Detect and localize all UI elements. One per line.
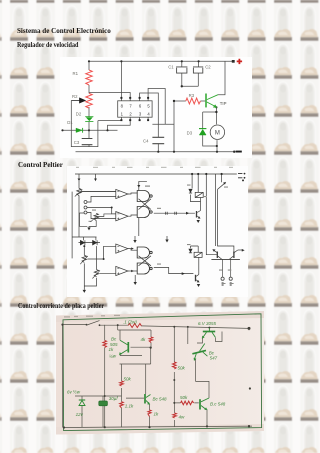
component value labels (67, 65, 226, 145)
ground arrow mid1 (134, 282, 137, 285)
ground arrow mid3 (133, 240, 136, 243)
wire latch2 cross coupling (139, 256, 152, 266)
wiper arrow of R2 (71, 98, 85, 103)
svg-text:.1 (2w): .1 (2w) (123, 319, 137, 324)
wire ground stub mid2 (166, 236, 168, 240)
wire top rail left (63, 324, 87, 326)
wire mid horizontal node row (62, 129, 117, 131)
resistor 50k mid (173, 362, 177, 369)
wire v 131.8 to driver (187, 327, 189, 344)
wire T4 collector loop to Q5 emitter (196, 359, 210, 398)
supply arrow pot1 (78, 179, 81, 182)
wire 2N3055 emitter down (197, 338, 203, 343)
wire connector J1 row3 (87, 213, 116, 219)
svg-text:R1: R1 (72, 71, 78, 76)
supply plus terminal (236, 59, 241, 64)
arrowhead latch1 to Q1 (186, 212, 189, 215)
wire P4 wiper to U1B (80, 213, 112, 228)
svg-text:505: 505 (110, 342, 118, 347)
svg-text:D3: D3 (186, 130, 192, 135)
wire R7 branch (174, 403, 176, 427)
wire left edge vertical (62, 325, 64, 428)
svg-text:TIP: TIP (219, 101, 226, 106)
wire right edge stub (248, 328, 250, 330)
motor M1 (210, 125, 224, 139)
relay K2 flyback diode (189, 249, 192, 253)
svg-text:1.1k: 1.1k (125, 404, 134, 409)
svg-text:Bc 548: Bc 548 (153, 397, 168, 402)
svg-text:R2: R2 (72, 94, 78, 99)
arrowhead op4 out (131, 270, 134, 272)
capacitor C3 (81, 139, 92, 145)
wire connector J1 row1 (87, 196, 116, 202)
wire long vertical rail B (215, 174, 217, 246)
wire Q1 emitter branch (120, 354, 142, 355)
svg-text:6.V 3055: 6.V 3055 (198, 321, 217, 326)
capacitor C4 (152, 137, 164, 143)
wire collector to rail (218, 61, 225, 94)
wire pin1 connection (107, 121, 130, 131)
schematic 2: control peltier (logic/relay board) (67, 166, 248, 297)
output pair Q3 (213, 249, 222, 259)
arrow to external load (238, 249, 245, 251)
wire gate G2 bottom stub (138, 218, 140, 236)
potentiometer 50k left (120, 381, 124, 386)
signal ticks on latch1 output (166, 212, 177, 215)
wire latch1 cross coupling (139, 199, 152, 210)
nand gate G3 (137, 247, 152, 258)
nand gate G1 (137, 191, 152, 202)
wire latch1 output to Q1 base (154, 212, 195, 214)
wire P2 wiper to op-amp U2A (87, 246, 115, 259)
wire left block top row (75, 395, 122, 397)
wire v 119 (173, 327, 175, 362)
terminal dash rows top right (238, 174, 242, 178)
transistor Q2 (196, 275, 200, 283)
faint header smudges (76, 167, 233, 168)
capacitor C1 (176, 67, 187, 73)
wire 2N3055 collector loop (216, 332, 223, 342)
resistor 1k quarter W (103, 341, 107, 348)
LED D2 (85, 117, 93, 122)
transistor Q1 BC548 (119, 340, 128, 355)
relay K2 coil box (194, 252, 202, 257)
diode DA (80, 240, 85, 245)
subtitle: Control corriente de placa peltier (18, 301, 104, 310)
wire ground stub mid1 (134, 275, 136, 282)
wire top rail mid (100, 324, 129, 326)
wire left vertical segments (88, 61, 90, 146)
transistor 2N3055 (202, 328, 216, 339)
electrolytic capacitor 300uF (99, 401, 108, 406)
IC pin pads (120, 97, 149, 121)
schematic 1: regulador de velocidad (555 PWM motor speed control) (60, 57, 252, 158)
wire pin6 to C4 (139, 93, 158, 137)
svg-text:C1: C1 (168, 65, 174, 70)
svg-text:C4: C4 (143, 139, 149, 144)
wire R5 branch (121, 364, 123, 427)
wire R3 to base (200, 100, 205, 102)
resistor R2 (potentiometer) (85, 93, 91, 108)
wire pin5 branch (148, 89, 174, 152)
wire trimmer P2 branch (83, 246, 85, 290)
trimmer P3 (92, 270, 100, 279)
op-amp U1A (116, 189, 128, 198)
output terminal posts (221, 277, 232, 280)
diode D3 (199, 129, 206, 135)
wire pin7 to R1/R2 junction (89, 93, 130, 98)
svg-text:B.c 548: B.c 548 (210, 402, 226, 407)
connector J1 pins (84, 201, 87, 215)
svg-text:D2: D2 (75, 112, 81, 117)
nand gate G4 (137, 263, 152, 274)
node dots (61, 324, 251, 429)
wire op4 out to gate G4 (128, 270, 137, 272)
transistor Q4 BC548 right (200, 398, 209, 410)
wire relay K1 feed (191, 174, 201, 202)
resistor R1 (85, 70, 91, 85)
svg-text:D1: D1 (67, 120, 73, 125)
handwritten labels (67, 319, 226, 419)
transistor Q1 (197, 211, 201, 219)
wire mid column (173, 372, 175, 403)
supply arrow B (94, 179, 97, 182)
subtitle: Regulador de velocidad (17, 40, 78, 49)
resistor 0.1 ohm 2W on rail (128, 324, 141, 328)
wire mid H row (120, 348, 151, 394)
wire pot feedback loop (71, 101, 121, 147)
hand drawn border frame (63, 314, 262, 431)
ground arrow Q1 (197, 220, 200, 223)
terminal polarity marks (222, 283, 232, 286)
resistor R8 emitter (148, 410, 151, 417)
wire cap branch (102, 396, 104, 427)
op-amp U2B (116, 266, 128, 275)
wire emitter to motor (215, 107, 217, 124)
transistor Q1 TIP (206, 94, 218, 108)
wire Q1 base row (131, 346, 151, 348)
schematic 3: control corriente de placa peltier (hand drawn) (56, 310, 264, 437)
diode D1 (76, 128, 83, 133)
subtitle: Control Peltier (18, 160, 63, 169)
svg-text:6v ½w: 6v ½w (67, 389, 81, 395)
svg-text:12v: 12v (76, 412, 84, 417)
wire R6 to T4 (174, 402, 199, 404)
svg-text:1k: 1k (109, 347, 115, 352)
svg-text:1k: 1k (154, 412, 160, 417)
wire output terminals (223, 259, 231, 277)
wire trimmer P3 branch (84, 246, 96, 286)
gate input arrow latch1 (137, 185, 140, 188)
wire zener branch (81, 396, 83, 427)
op-amp U2A (116, 244, 128, 253)
wire collector bus of output pair (211, 258, 240, 260)
resistor R7 47 (173, 413, 177, 418)
svg-text:¼w: ¼w (109, 354, 117, 359)
diode DB (93, 240, 98, 245)
wire connector J1 row2 to U1B (87, 208, 116, 214)
arrowhead op3 out (131, 247, 134, 249)
wire P3 wiper to op-amp U2B (100, 272, 116, 274)
wire C4 to ground rail (157, 144, 159, 152)
wire T2 base stub (126, 397, 144, 399)
nand gate G2 (137, 207, 152, 218)
wire top supply rail (75, 173, 237, 175)
svg-text:50k: 50k (124, 376, 132, 381)
wire v2 to Q1 (118, 325, 151, 340)
wire relay K1 to Q1 collector (200, 198, 202, 211)
relay K1 flyback diode (189, 189, 192, 193)
wire C1 C2 coupling (181, 61, 198, 86)
svg-text:C2: C2 (205, 65, 211, 70)
output pair Q4 (229, 250, 238, 259)
wire supply stub B (95, 174, 97, 179)
switch S1 blade (87, 321, 100, 325)
wire latch2 output to Q2 base (154, 268, 194, 274)
wire R4 feed (150, 330, 152, 348)
wire op1 out to gate G1 (128, 193, 137, 194)
resistor R4 4k7 (149, 337, 153, 343)
wire T4 emitter down (206, 410, 208, 427)
capacitor C2 (193, 67, 203, 73)
transistor Q5 BC547 driver (191, 343, 208, 360)
svg-text:C3: C3 (73, 140, 79, 145)
IC U1 555 timer body (117, 101, 151, 117)
ground arrow Q2 (197, 284, 200, 287)
svg-text:50k: 50k (178, 366, 186, 371)
wire left outer vertical (72, 192, 79, 259)
wire pin8 to rail (120, 61, 122, 97)
wire bottom ground rail (75, 151, 234, 153)
svg-text:30µf: 30µf (109, 396, 119, 401)
node dots on supply rail (83, 173, 222, 260)
resistor R6 50k horizontal (181, 401, 194, 405)
relay K1 coil box (195, 192, 203, 197)
svg-text:R3: R3 (188, 93, 194, 98)
wire op2 out to gate G2 (128, 215, 137, 216)
wire R3 left (174, 100, 186, 102)
svg-text:50k: 50k (180, 395, 188, 400)
trimmer P4 (89, 213, 99, 222)
transistor Q2 BC548 mid (145, 394, 151, 405)
resistor R5 1k1 (120, 402, 124, 408)
wire D3 branch (202, 112, 216, 152)
resistor R3 (185, 98, 200, 104)
title: Sistema de Control Electrónico (17, 26, 111, 35)
wire top rail right (141, 326, 249, 329)
op-amp U1B (116, 212, 128, 221)
junction dot J1 row2 (111, 207, 113, 209)
wire T2 emitter resistor chain (149, 405, 151, 428)
supply minus terminal (235, 151, 241, 153)
node junction dots (61, 60, 235, 153)
svg-text:547: 547 (210, 356, 218, 361)
potentiometer P1 (75, 188, 83, 196)
IC pin stubs (121, 98, 148, 121)
svg-text:Bc: Bc (111, 337, 117, 342)
ground arrow P2 (83, 290, 86, 293)
wire relay K2 feeds (191, 246, 199, 275)
wire v1 long vertical (104, 325, 106, 427)
zener diode 6V (79, 400, 85, 406)
wire pot1 to op-amp U1A input (81, 191, 116, 193)
wire op3 out to gate G3 (128, 249, 137, 251)
svg-text:M: M (214, 130, 219, 136)
switch S1 contact (218, 182, 226, 189)
wire top supply rail (89, 60, 233, 62)
wire gate G1 top input hook (139, 181, 147, 190)
wire pot1 feed (78, 174, 80, 188)
arrowhead latch2 to Q2 (182, 272, 185, 275)
trimmer P2 (80, 255, 88, 264)
IC pin numbers (120, 104, 150, 117)
wire lower reference box (72, 237, 100, 243)
wire stub top mid (134, 236, 136, 240)
wire switch S1 feed (218, 174, 234, 252)
wire long vertical rail A (206, 174, 216, 255)
wire bottom rail (64, 426, 252, 427)
svg-text:4w: 4w (179, 415, 186, 420)
ground arrow P4 (87, 228, 90, 231)
svg-text:4k: 4k (141, 337, 147, 342)
ground arrow mid2 (165, 240, 168, 243)
tiny label smudges (92, 185, 234, 285)
photo margin smudges (64, 315, 120, 318)
